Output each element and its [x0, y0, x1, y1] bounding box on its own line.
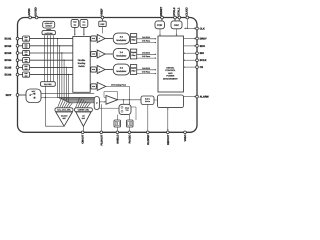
- svg-text:Modulator: Modulator: [116, 55, 126, 58]
- svg-text:CH3 ECG: CH3 ECG: [142, 67, 151, 70]
- wire: [118, 99, 141, 101]
- svg-text:REFOUT: REFOUT: [167, 134, 170, 145]
- svg-text:Filter: Filter: [131, 54, 135, 57]
- svg-text:XTAL2: XTAL2: [173, 7, 176, 16]
- svg-text:Modulator: Modulator: [116, 39, 126, 42]
- svg-text:SDO: SDO: [200, 45, 205, 48]
- block pace buf 1: [114, 120, 121, 127]
- pin AVDD: [28, 8, 31, 19]
- pin IOVDD: [35, 7, 38, 19]
- pin CMOUT: [81, 131, 84, 144]
- block REF buffer: [99, 21, 106, 33]
- wire fan: [58, 98, 91, 108]
- svg-text:Σ-Δ: Σ-Δ: [120, 36, 124, 39]
- pin CLK: [196, 27, 205, 30]
- wire: [19, 94, 26, 96]
- amp wilson terminal: [56, 112, 73, 126]
- pin CS: [184, 66, 204, 69]
- channel 1 chain: [90, 33, 156, 44]
- block flexible routing switch: [73, 37, 90, 93]
- wire clk bidir: [184, 28, 195, 30]
- svg-text:SDI: SDI: [200, 52, 204, 55]
- svg-text:Digital: Digital: [131, 36, 137, 39]
- svg-text:VSSO: VSSO: [184, 135, 187, 142]
- block OSC: [171, 21, 182, 29]
- svg-text:Σ-Δ: Σ-Δ: [120, 67, 124, 70]
- block digital control: [158, 36, 184, 92]
- svg-text:Σ-Δ: Σ-Δ: [120, 51, 124, 54]
- svg-text:CAL_DAC_SEL: CAL_DAC_SEL: [57, 109, 72, 112]
- block pace buf 2: [127, 120, 134, 127]
- svg-text:RLDREF: RLDREF: [147, 134, 150, 145]
- wire: [116, 115, 118, 132]
- svg-text:OSC: OSC: [174, 24, 179, 27]
- wire: [99, 107, 119, 109]
- channel 3 chain: [90, 64, 156, 75]
- svg-text:Filter: Filter: [131, 70, 135, 73]
- pin REFOUT: [166, 131, 169, 145]
- svg-text:RESET: RESET: [160, 6, 163, 15]
- block shield amp: [119, 104, 131, 114]
- wire: [123, 99, 124, 104]
- pin SHIELD: [116, 131, 119, 144]
- pin FILROUT: [100, 131, 103, 145]
- svg-text:CH4 Analog Pace: CH4 Analog Pace: [111, 83, 126, 86]
- svg-text:Digital: Digital: [131, 67, 137, 70]
- wire: [100, 104, 102, 131]
- pin PACEO: [128, 131, 131, 143]
- svg-text:CH2 ECG: CH2 ECG: [142, 51, 151, 54]
- svg-text:CMREF_SEL: CMREF_SEL: [78, 109, 91, 112]
- svg-text:AND: AND: [168, 72, 173, 75]
- svg-text:SHIELD: SHIELD: [116, 134, 119, 143]
- wire: [74, 27, 76, 36]
- svg-text:CH2 Pace: CH2 Pace: [142, 55, 150, 58]
- block calib B: [80, 19, 88, 27]
- svg-text:Digital: Digital: [131, 51, 137, 54]
- pin ALARM: [196, 95, 209, 98]
- input channel ECG2: [4, 43, 72, 49]
- input channel ECG4: [4, 58, 72, 64]
- svg-text:IOVDD: IOVDD: [35, 7, 38, 16]
- block POR: [155, 21, 165, 29]
- wire: [83, 27, 85, 36]
- wire: [184, 96, 196, 98]
- svg-text:WCT: WCT: [6, 94, 12, 97]
- amp rld driver: [104, 92, 118, 105]
- svg-text:Switch: Switch: [78, 65, 85, 68]
- svg-text:AVDD: AVDD: [28, 8, 31, 15]
- svg-text:SCLK: SCLK: [200, 59, 207, 62]
- wire: [154, 99, 158, 101]
- svg-text:DRDY: DRDY: [200, 38, 207, 41]
- block rld in: [141, 96, 154, 105]
- svg-text:−: −: [99, 56, 100, 58]
- pin RLDREF: [146, 131, 149, 145]
- svg-text:Routing: Routing: [78, 62, 86, 65]
- wire: [41, 92, 94, 94]
- svg-text:CH1 ECG: CH1 ECG: [142, 36, 151, 39]
- svg-text:ECG5: ECG5: [4, 66, 11, 69]
- wire: [45, 86, 64, 126]
- pin SDO: [184, 45, 206, 48]
- block wct switch: [26, 89, 41, 103]
- svg-text:DIGITAL: DIGITAL: [166, 66, 175, 69]
- block reference: [158, 95, 184, 108]
- pin SDI: [184, 52, 204, 55]
- wire: [147, 105, 149, 132]
- block lead select: [41, 82, 56, 87]
- svg-text:Flexible: Flexible: [78, 59, 86, 62]
- wire: [82, 126, 84, 131]
- svg-text:FILROUT: FILROUT: [100, 134, 103, 145]
- amp common mode: [76, 112, 91, 126]
- svg-text:−: −: [99, 71, 100, 73]
- block wct sel: [55, 108, 73, 112]
- block rld mux: [94, 97, 99, 110]
- pin XTAL1: [177, 7, 180, 21]
- wire loff bus: [45, 35, 54, 81]
- wire: [0, 0, 1, 1]
- svg-text:Modulator: Modulator: [116, 70, 126, 73]
- wire: [129, 86, 131, 120]
- wire: [131, 107, 136, 120]
- wire: [128, 127, 130, 131]
- block loff dac: [42, 31, 55, 35]
- svg-text:ECG1: ECG1: [4, 38, 11, 41]
- svg-text:ECG3: ECG3: [4, 52, 11, 55]
- svg-text:ECG2: ECG2: [4, 45, 11, 48]
- input channel ECG5: [4, 65, 72, 71]
- svg-text:ALARM: ALARM: [200, 96, 209, 99]
- channel 2 chain: [90, 49, 156, 60]
- pin VSSO: [184, 131, 187, 142]
- svg-text:CMOUT: CMOUT: [82, 134, 85, 144]
- svg-text:CLKIO: CLKIO: [185, 7, 188, 15]
- input channel ECG3: [4, 50, 72, 56]
- svg-text:ECG6: ECG6: [4, 74, 11, 77]
- pin VREF: [100, 8, 103, 19]
- svg-text:PACEO: PACEO: [128, 135, 131, 144]
- pin CLKIO: [185, 7, 188, 29]
- channel 4 analog pace: [90, 82, 129, 90]
- block calib A: [71, 19, 79, 27]
- wire: [176, 29, 178, 36]
- svg-text:VREF: VREF: [100, 8, 103, 16]
- input channel ECG6: [4, 72, 72, 78]
- svg-text:XTAL1: XTAL1: [177, 7, 180, 16]
- wire tap bus: [58, 39, 95, 103]
- chip outline: [18, 18, 198, 133]
- pin WCT: [6, 94, 19, 97]
- svg-text:CH1 Pace: CH1 Pace: [142, 40, 150, 43]
- svg-text:CS: CS: [200, 66, 204, 69]
- wire: [167, 108, 169, 131]
- pin DRDY: [184, 37, 208, 40]
- svg-text:MANAGEMENT: MANAGEMENT: [163, 78, 178, 81]
- svg-text:CLK: CLK: [200, 28, 205, 31]
- svg-text:Filter: Filter: [131, 39, 135, 42]
- block cmref sel: [74, 108, 92, 112]
- wire: [99, 101, 106, 103]
- pin XTAL2: [173, 7, 176, 21]
- pin SCLK: [184, 59, 207, 62]
- input channel ECG1: [4, 36, 72, 42]
- svg-text:ECG4: ECG4: [4, 59, 11, 62]
- wire: [41, 97, 94, 99]
- svg-text:CONTROL: CONTROL: [165, 69, 176, 72]
- pin RESET: [160, 6, 163, 20]
- svg-text:CH3 Pace: CH3 Pace: [142, 71, 150, 74]
- svg-text:−: −: [99, 40, 100, 42]
- svg-text:RLD SEL: RLD SEL: [44, 83, 52, 86]
- svg-text:POWER: POWER: [166, 75, 174, 78]
- wire: [159, 29, 161, 36]
- wire: [101, 19, 103, 22]
- svg-text:POR: POR: [157, 24, 162, 27]
- block lead-off detect: [43, 21, 55, 31]
